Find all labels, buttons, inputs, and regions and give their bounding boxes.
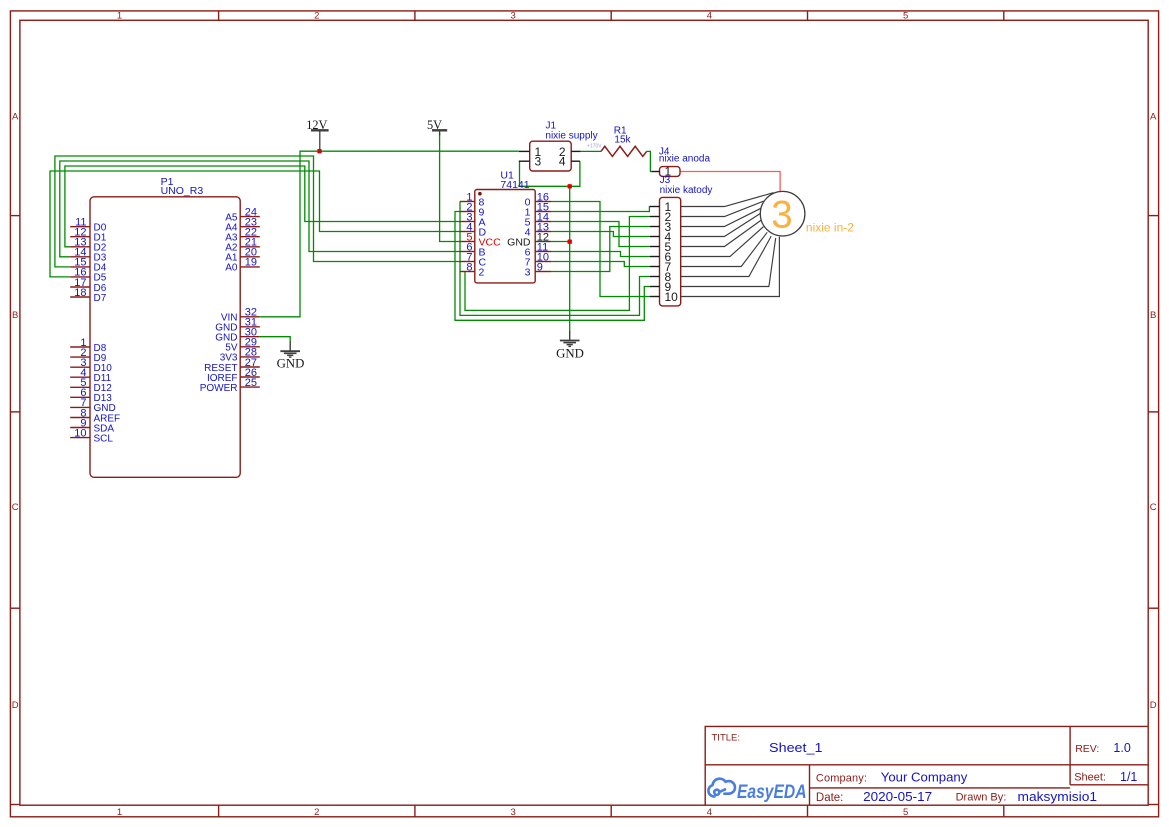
svg-text:nixie supply: nixie supply [545, 131, 597, 142]
svg-text:1/1: 1/1 [1120, 770, 1137, 784]
nixie tube symbol (circle) [760, 191, 805, 236]
svg-text:4: 4 [707, 11, 712, 22]
svg-text:B: B [12, 310, 18, 321]
wire D4 to U1 C [55, 156, 460, 267]
svg-text:4: 4 [707, 807, 712, 818]
power symbol 12V [311, 130, 329, 151]
svg-text:3: 3 [771, 193, 792, 236]
junction U1 gnd [568, 240, 572, 244]
wire J3 pin5 to nixie cathode [681, 220, 762, 246]
wire U1 out5 to J3 pin5 [551, 222, 650, 247]
svg-text:12V: 12V [306, 118, 327, 132]
connector P1 UNO_R3 [90, 176, 240, 477]
U1 right pins 9-16 (stubs, numbers, names) [507, 192, 551, 279]
svg-text:3: 3 [535, 155, 542, 169]
U1 left pins 1-8 (stubs, numbers, names) [460, 192, 501, 279]
svg-text:2020-05-17: 2020-05-17 [863, 789, 932, 804]
wire J3 pin8 to nixie cathode [681, 236, 772, 276]
title block [705, 726, 1148, 805]
svg-text:2: 2 [314, 11, 319, 22]
wire U1 out8 to J3 pin8 [460, 202, 650, 316]
svg-text:1.0: 1.0 [1113, 741, 1130, 755]
J3 pins 1-10 (stubs and numbers) [650, 200, 678, 304]
svg-text:Sheet:: Sheet: [1074, 772, 1106, 784]
wire 5V to U1 VCC [440, 133, 460, 242]
wire U1 out3 to J3 pin3 [551, 227, 650, 272]
svg-text:C: C [1150, 502, 1157, 513]
wire UNO GND pin30 to ground [260, 337, 290, 342]
svg-text:A: A [12, 111, 19, 122]
svg-text:UNO_R3: UNO_R3 [161, 185, 204, 197]
wire U1 out1 to J3 pin1 [551, 207, 651, 212]
svg-text:REV:: REV: [1075, 743, 1099, 755]
svg-text:8: 8 [466, 262, 472, 274]
wire U1 out2 to J3 pin2 [465, 217, 650, 311]
wire J1 pin3/pin4 loop to GND net [520, 161, 580, 186]
svg-text:EasyEDA: EasyEDA [737, 781, 807, 803]
wire J3 pin9 to nixie cathode [681, 238, 776, 287]
wire 12V rail: UNO VIN to J1 pin1 [260, 151, 519, 317]
wire J3 pin10 to nixie cathode [681, 237, 780, 297]
svg-text:POWER: POWER [200, 383, 238, 394]
svg-text:B: B [1150, 310, 1156, 321]
svg-text:2: 2 [479, 266, 485, 278]
svg-text:Sheet_1: Sheet_1 [769, 740, 823, 755]
wire J3 pin2 to nixie cathode [681, 201, 764, 216]
svg-text:3: 3 [525, 266, 531, 278]
svg-text:9: 9 [537, 262, 543, 274]
svg-text:GND: GND [556, 347, 584, 361]
svg-text:Drawn By:: Drawn By: [956, 792, 1007, 804]
resistor R1 15k [601, 125, 647, 156]
svg-text:Your Company: Your Company [881, 771, 968, 785]
connector J3 nixie katody [660, 175, 713, 306]
wire D5 to U1 D [50, 171, 460, 277]
wire U1 pin12 GND to GND net [551, 241, 570, 243]
connector J4 nixie anoda [651, 147, 710, 179]
op-amp/driver U1 74141 [475, 169, 535, 283]
svg-text:D7: D7 [94, 293, 107, 304]
EasyEDA logo [708, 779, 735, 797]
wire J4 anode to nixie (+170V net) [680, 172, 780, 192]
ground symbol at UNO pin30 [280, 341, 300, 357]
power symbol 5V [432, 130, 447, 135]
junction 12V tap [317, 149, 321, 153]
wire U1 out7 to J3 pin7 [551, 262, 650, 267]
svg-text:nixie anoda: nixie anoda [659, 154, 711, 165]
svg-text:15k: 15k [614, 135, 631, 146]
svg-text:1: 1 [117, 807, 122, 818]
svg-text:25: 25 [245, 377, 257, 389]
connector J1 nixie supply [519, 121, 598, 171]
svg-text:SCL: SCL [94, 433, 114, 444]
svg-text:18: 18 [74, 287, 86, 299]
svg-text:10: 10 [74, 427, 86, 439]
wire U1 out9 to J3 pin9 [455, 212, 650, 321]
svg-text:maksymisio1: maksymisio1 [1018, 789, 1098, 804]
svg-text:C: C [12, 502, 19, 513]
svg-text:2: 2 [314, 807, 319, 818]
wire U1 out4 to J3 pin4 [551, 232, 650, 237]
wire D3 to U1 B [60, 161, 460, 257]
svg-text:10: 10 [665, 290, 679, 304]
svg-text:4: 4 [559, 155, 566, 169]
wire D2 to U1 A [65, 166, 460, 247]
svg-text:5V: 5V [427, 118, 442, 132]
svg-text:+170V: +170V [587, 144, 602, 150]
wire R1 to J4 pin1 [647, 151, 652, 171]
svg-text:A0: A0 [225, 263, 238, 274]
wire J3 pin6 to nixie cathode [681, 227, 764, 257]
wire J3 pin1 to nixie cathode [681, 193, 774, 207]
svg-text:GND: GND [277, 357, 305, 371]
svg-text:5: 5 [903, 11, 908, 22]
svg-text:TITLE:: TITLE: [712, 733, 741, 744]
svg-text:D: D [1150, 700, 1157, 711]
svg-text:A: A [1150, 111, 1157, 122]
ground symbol at U1/J1 GND net [560, 331, 580, 347]
svg-text:74141: 74141 [500, 179, 529, 191]
svg-text:D: D [12, 700, 19, 711]
wire U1 out0 to J3 pin10 [551, 202, 650, 297]
junction J1 gnd loop [568, 184, 572, 188]
svg-text:nixie katody: nixie katody [660, 185, 713, 196]
svg-text:3: 3 [510, 11, 515, 22]
wire J3 pin7 to nixie cathode [681, 232, 768, 266]
P1 left pins (stubs, numbers, names) [70, 217, 120, 445]
svg-text:19: 19 [245, 257, 257, 269]
svg-text:3: 3 [510, 807, 515, 818]
wire J3 pin4 to nixie cathode [681, 213, 761, 236]
svg-text:nixie in-2: nixie in-2 [806, 220, 854, 234]
P1 right pins (stubs, numbers, names) [200, 206, 260, 394]
svg-text:5: 5 [903, 807, 908, 818]
svg-text:Date:: Date: [816, 792, 844, 804]
wire GND vertical from J1 loop to ground symbol [569, 186, 571, 330]
svg-text:Company:: Company: [816, 772, 867, 784]
wire J1 pin2 to R1 [581, 150, 601, 152]
wire J3 pin3 to nixie cathode [681, 208, 762, 227]
svg-text:1: 1 [117, 11, 122, 22]
wire U1 out6 to J3 pin6 [551, 252, 650, 257]
